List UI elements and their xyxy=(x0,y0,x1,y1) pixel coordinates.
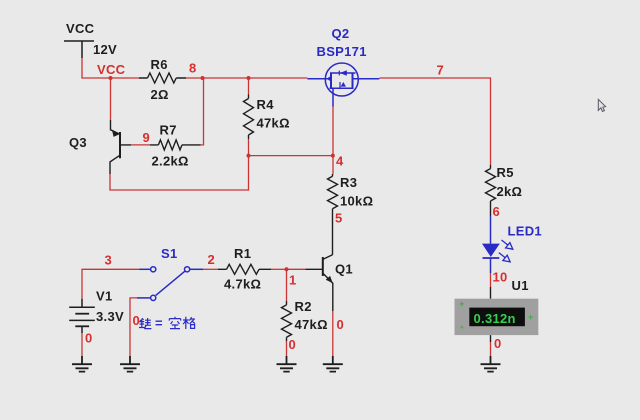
transistor Q3 xyxy=(110,120,158,174)
wire LED to U1 xyxy=(490,273,492,287)
svg-text:9: 9 xyxy=(143,130,151,145)
ground under R2 xyxy=(277,356,297,372)
wire Q2 drain to R5 xyxy=(379,78,490,165)
ground under switch xyxy=(120,356,140,372)
svg-text:0.312n: 0.312n xyxy=(474,311,516,326)
svg-text:R4: R4 xyxy=(257,97,275,112)
svg-text:6: 6 xyxy=(493,204,501,219)
Q2 gate junction dot xyxy=(328,77,332,81)
svg-text:Q3: Q3 xyxy=(69,135,87,150)
wire battery top to switch xyxy=(82,269,140,298)
glyph ge xyxy=(183,317,195,329)
svg-text:R1: R1 xyxy=(234,246,251,261)
node 4 junction xyxy=(331,154,335,158)
svg-text:VCC: VCC xyxy=(97,62,126,77)
ground under Q1 xyxy=(323,356,343,372)
wire R4 bottom lead xyxy=(248,139,250,156)
resistor R4 xyxy=(244,95,254,140)
svg-text:3: 3 xyxy=(105,253,113,268)
wire VCC post to R6 xyxy=(82,58,139,78)
wire gate node to node 4 xyxy=(249,155,333,157)
glyph jian xyxy=(139,318,151,329)
battery V1 xyxy=(69,299,95,333)
LED1 emission arrow 2 xyxy=(499,253,510,262)
resistor R1 xyxy=(218,264,271,274)
svg-text:4.7kΩ: 4.7kΩ xyxy=(224,277,261,292)
Q2 body arrow xyxy=(340,70,347,75)
junction R4 top xyxy=(247,76,251,80)
svg-text:2: 2 xyxy=(208,252,216,267)
svg-text:V1: V1 xyxy=(96,289,113,304)
wire node 1 to R2 xyxy=(286,269,288,301)
svg-text:R5: R5 xyxy=(497,165,514,180)
svg-text:10: 10 xyxy=(493,270,508,285)
wire rail to Q3 emitter xyxy=(110,78,112,120)
svg-text:4: 4 xyxy=(336,154,344,169)
ground under V1 xyxy=(72,356,92,372)
junction node 8 xyxy=(201,76,205,80)
svg-text:0: 0 xyxy=(289,337,297,352)
svg-text:R6: R6 xyxy=(151,57,168,72)
svg-text:12V: 12V xyxy=(93,42,117,57)
meter U1 marker bottom-left xyxy=(460,326,463,329)
switch S1 xyxy=(137,267,203,301)
svg-text:S1: S1 xyxy=(161,246,178,261)
junction at Q3 emitter riser xyxy=(109,76,113,80)
svg-text:3.3V: 3.3V xyxy=(96,309,124,324)
wire R4 top lead xyxy=(248,78,250,95)
svg-text:0: 0 xyxy=(85,331,93,346)
junction node 1 xyxy=(285,267,289,271)
meter U1 marker top-left xyxy=(460,302,465,306)
wire U1 to ground xyxy=(490,335,492,342)
svg-text:47kΩ: 47kΩ xyxy=(295,317,328,332)
wire R7 to rail node 8 xyxy=(201,78,204,145)
resistor R2 xyxy=(282,301,292,341)
svg-text:2kΩ: 2kΩ xyxy=(497,184,523,199)
svg-text:Q2: Q2 xyxy=(332,26,350,41)
meter U1 body xyxy=(455,299,539,335)
svg-text:R7: R7 xyxy=(160,123,177,138)
svg-text:R3: R3 xyxy=(340,175,357,190)
Q2 substrate arrow xyxy=(341,82,346,87)
svg-text:2.2kΩ: 2.2kΩ xyxy=(152,154,189,169)
MOSFET Q2 BSP171 xyxy=(307,63,379,107)
svg-text:0: 0 xyxy=(494,336,502,351)
svg-text:5: 5 xyxy=(335,211,343,226)
wire R3 to Q1 collector xyxy=(332,209,334,255)
wire switch lower contact to ground xyxy=(130,298,137,357)
svg-text:10kΩ: 10kΩ xyxy=(340,194,373,209)
resistor R6 xyxy=(139,73,186,83)
svg-text:LED1: LED1 xyxy=(508,224,542,239)
LED1 emission arrow 1 xyxy=(502,240,513,249)
junction R4 bottom xyxy=(247,154,251,158)
LED LED1 xyxy=(490,216,492,244)
meter U1 marker right xyxy=(528,315,533,320)
wire R6 to Q2 source xyxy=(186,77,307,79)
wire R1 to node 1 xyxy=(271,268,287,270)
svg-text:47kΩ: 47kΩ xyxy=(257,116,290,131)
svg-text:7: 7 xyxy=(437,63,445,78)
ground under U1 xyxy=(481,356,501,372)
svg-text:Q1: Q1 xyxy=(335,262,353,277)
wire V1 to ground xyxy=(81,333,83,357)
transistor Q1 xyxy=(305,255,333,311)
meter U1 display xyxy=(469,308,525,327)
svg-text:R2: R2 xyxy=(295,299,312,314)
svg-text:2Ω: 2Ω xyxy=(151,87,169,102)
svg-text:U1: U1 xyxy=(512,278,529,293)
power VCC symbol xyxy=(64,41,94,58)
svg-text:BSP171: BSP171 xyxy=(317,44,367,59)
glyph kong xyxy=(169,317,180,329)
wire Q3 base segment node 9 xyxy=(131,144,150,146)
Q1 emitter arrow xyxy=(326,276,333,283)
wire R2 to ground xyxy=(286,341,288,356)
Q3 emitter arrow xyxy=(112,130,119,137)
svg-text:=: = xyxy=(155,316,163,331)
mouse cursor xyxy=(598,99,605,111)
svg-text:8: 8 xyxy=(189,61,197,76)
wire Q1 base xyxy=(287,268,306,270)
svg-text:0: 0 xyxy=(337,317,345,332)
U1 probe lead top xyxy=(490,287,492,299)
svg-text:1: 1 xyxy=(289,273,297,288)
resistor R7 xyxy=(158,140,200,150)
wire Q1 emitter to ground xyxy=(332,311,334,356)
wire switch to R1 xyxy=(203,268,218,270)
wire feedback loop to Q3 collector xyxy=(110,156,249,190)
wire Q2 drain to node 4 and R3 xyxy=(332,107,334,175)
resistor R3 xyxy=(328,174,338,209)
svg-text:0: 0 xyxy=(133,313,141,328)
resistor R5 xyxy=(486,165,496,216)
svg-text:VCC: VCC xyxy=(66,21,95,36)
